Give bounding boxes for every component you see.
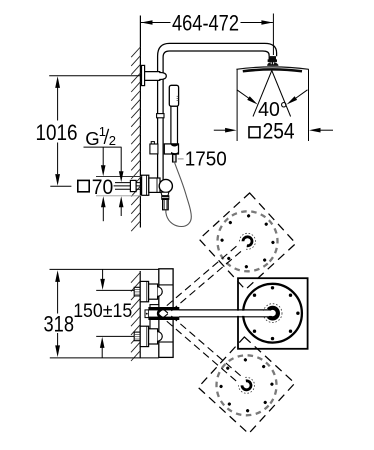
extension lines for 254 <box>237 69 308 141</box>
svg-text:1750: 1750 <box>185 149 227 171</box>
head swivel position lower (dashed) <box>158 308 295 433</box>
svg-text:318: 318 <box>44 311 75 336</box>
wall (lower, plan view) <box>131 271 140 361</box>
shower hose <box>166 162 192 227</box>
shower arm plan view with hub <box>179 304 282 323</box>
hand shower <box>169 85 178 144</box>
label 1750 <box>178 149 227 171</box>
riser union joint <box>157 114 164 118</box>
dimension 464-472 <box>141 11 273 55</box>
head ball joint <box>267 57 278 66</box>
slide bar holder <box>150 142 179 154</box>
svg-text:150±15: 150±15 <box>73 300 132 322</box>
head swivel position upper (dashed) <box>158 193 296 319</box>
label G 1/2 <box>84 124 122 149</box>
shower head side view <box>236 67 308 71</box>
svg-text:1016: 1016 <box>36 120 78 145</box>
wall bracket <box>142 65 167 85</box>
svg-text:70: 70 <box>92 176 114 199</box>
wall (upper, side view) <box>131 16 140 232</box>
mixer wall escutcheon <box>142 175 149 195</box>
thermostat body plan view <box>145 269 173 358</box>
svg-text:G: G <box>85 128 99 149</box>
shower arm <box>158 43 277 114</box>
svg-text:464-472: 464-472 <box>172 11 239 36</box>
dimension arrows G1/2 and 70 <box>101 147 124 221</box>
svg-text:254: 254 <box>263 119 295 144</box>
square shower head plan view <box>238 278 308 349</box>
escutcheon extension lines <box>96 177 142 196</box>
spray angle 40 deg <box>237 71 308 122</box>
riser pipe <box>158 114 164 180</box>
mixer outlet <box>161 192 169 209</box>
dimension 1016 <box>36 76 142 187</box>
dimension square-254 <box>214 119 333 144</box>
svg-text:1: 1 <box>99 124 106 139</box>
supply pipe in wall <box>114 180 141 191</box>
arm connection plan view <box>149 307 179 319</box>
dimension 318 <box>44 269 159 358</box>
dimension 150 plus-minus 15 <box>73 270 134 358</box>
label square-70 <box>78 176 114 199</box>
svg-text:2: 2 <box>109 133 116 148</box>
supply unions <box>134 281 162 346</box>
hose connector <box>173 155 177 162</box>
mixer body <box>149 178 173 193</box>
